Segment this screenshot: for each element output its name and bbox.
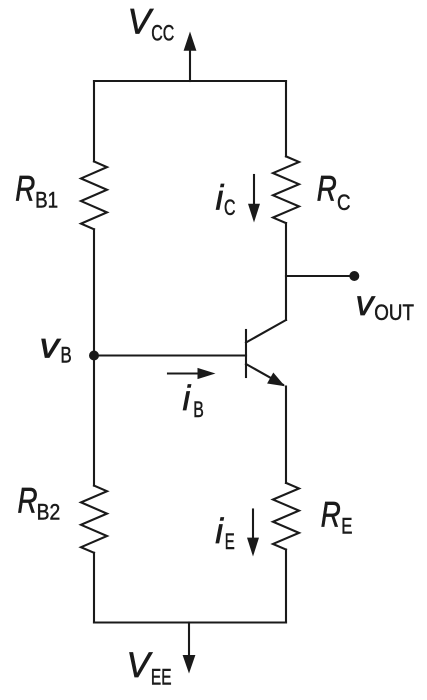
svg-text:CC: CC (151, 20, 174, 45)
svg-text:i: i (215, 512, 224, 551)
svg-text:E: E (225, 529, 235, 554)
svg-text:i: i (183, 379, 192, 418)
svg-text:v: v (356, 284, 377, 323)
svg-text:R: R (321, 495, 341, 534)
svg-text:R: R (317, 170, 337, 209)
svg-text:B2: B2 (37, 500, 61, 525)
svg-text:C: C (224, 195, 236, 220)
svg-text:OUT: OUT (374, 300, 414, 325)
svg-text:B1: B1 (35, 187, 58, 212)
svg-text:v: v (40, 326, 62, 365)
svg-text:V: V (127, 646, 154, 685)
svg-text:E: E (341, 513, 352, 538)
svg-text:R: R (18, 482, 38, 521)
svg-text:EE: EE (151, 665, 172, 690)
svg-text:R: R (15, 169, 35, 208)
svg-text:B: B (61, 343, 72, 368)
svg-text:B: B (193, 397, 204, 422)
svg-text:C: C (337, 190, 351, 215)
